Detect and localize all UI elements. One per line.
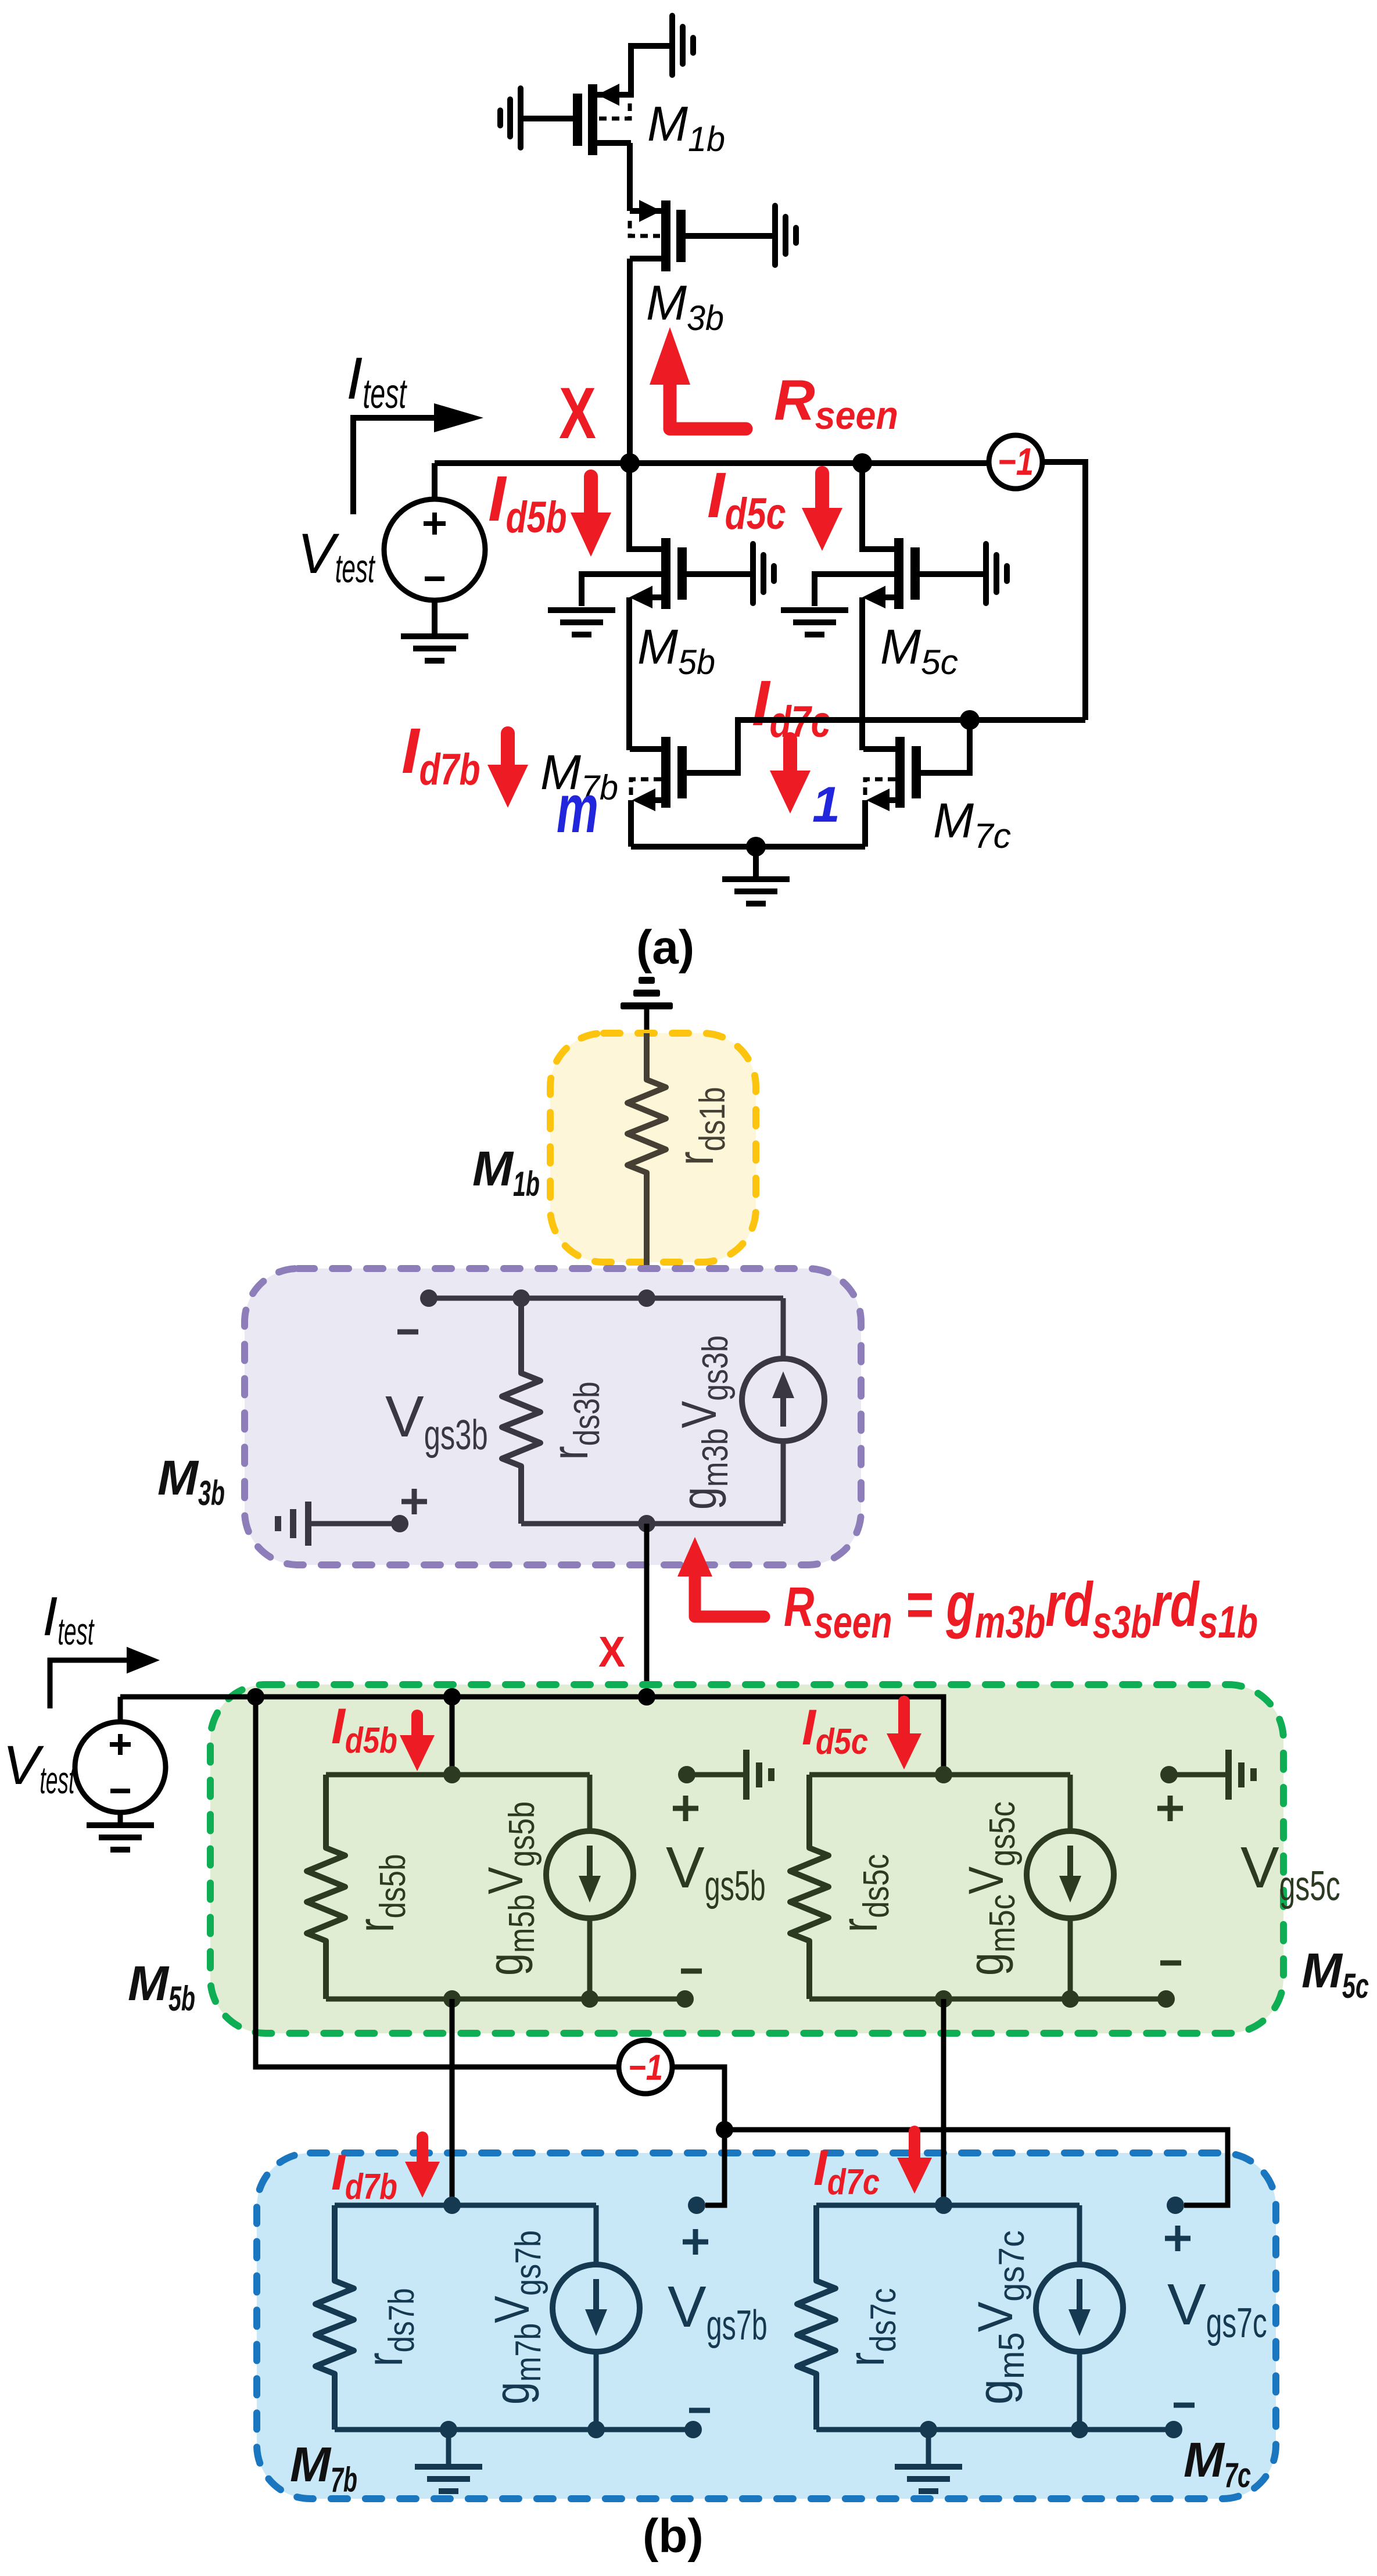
box M3b (purple dashed) bbox=[245, 1269, 861, 1565]
plus sign Vgs7b bbox=[683, 2229, 708, 2255]
M3b gate terminal minus sign bbox=[397, 1330, 418, 1335]
transistor M5b bbox=[582, 463, 750, 750]
gate terminal dot Vgs5c plus bbox=[1160, 1766, 1178, 1783]
wire M7c gate riser bbox=[921, 720, 970, 773]
node dot gate feed bbox=[716, 2121, 733, 2138]
M7b bottom rail bbox=[335, 2427, 693, 2432]
wire M5b source riser to M7b bbox=[450, 1999, 455, 2205]
wire M5b drain riser bbox=[450, 1697, 455, 1775]
node dot M5b drain bbox=[443, 1688, 461, 1706]
wire M1b drain to M3b source bbox=[627, 143, 633, 211]
terminal dot M5b minus bbox=[676, 1990, 694, 2008]
M3b top rail bbox=[429, 1296, 783, 1301]
node dot M7c top bbox=[935, 2197, 952, 2214]
resistor rds7b bbox=[315, 2205, 354, 2430]
main wire at node X bbox=[435, 460, 989, 466]
terminal dot Vgs7c plus bbox=[1167, 2197, 1184, 2214]
current source gm5c Vgs5c bbox=[1027, 1775, 1114, 1999]
node dot M5c source bbox=[935, 1990, 952, 2008]
bias battery Vgs5c bbox=[1169, 1750, 1257, 1800]
resistor rds7c bbox=[797, 2205, 835, 2430]
plus sign M3b gate bbox=[401, 1489, 427, 1514]
bottom source rail (a) bbox=[631, 844, 865, 850]
wire left branch to inverter bbox=[256, 1697, 619, 2067]
svg-text:X: X bbox=[598, 1628, 625, 1676]
node dot M3b bottom center bbox=[638, 1515, 655, 1532]
Vtest source (a) bbox=[384, 463, 485, 633]
node dot M7c gate line bbox=[960, 710, 980, 730]
plus sign Vgs5b bbox=[673, 1796, 698, 1821]
plus sign Vgs5c bbox=[1157, 1796, 1183, 1821]
bias battery at M3b gate bbox=[686, 203, 799, 268]
wire -1 output to gate line bbox=[1042, 462, 1085, 720]
svg-text:−1: −1 bbox=[628, 2048, 663, 2088]
red arrow Id7c (b) bbox=[897, 2131, 932, 2194]
svg-text:−1: −1 bbox=[998, 440, 1034, 483]
M5b top rail bbox=[326, 1772, 590, 1778]
M5c bottom rail bbox=[809, 1997, 1166, 2002]
transistor M3b bbox=[630, 200, 686, 271]
inverter -1 (b) bbox=[619, 2040, 672, 2094]
svg-text:(a): (a) bbox=[636, 921, 694, 974]
terminal dot Vgs7b plus bbox=[688, 2197, 705, 2214]
transistor M1b bbox=[573, 84, 631, 155]
ground M7b bbox=[415, 2430, 482, 2494]
current source gm5b Vgs5b bbox=[546, 1775, 633, 1999]
svg-text:m: m bbox=[557, 771, 598, 847]
Vtest source (b) bbox=[75, 1697, 166, 1822]
transistor M7b bbox=[630, 737, 687, 847]
terminal dot M7c minus bbox=[1165, 2421, 1182, 2438]
supply rail symbol top (b) bbox=[621, 977, 673, 1040]
box M1b (yellow dashed) bbox=[550, 1033, 756, 1262]
transistor M5c bbox=[815, 463, 983, 750]
red arrow Id5b (a) bbox=[571, 476, 611, 557]
red arrow Rseen (a) bbox=[650, 327, 746, 429]
M3b bulk dashed tie bbox=[630, 221, 660, 236]
wire M5c source riser to M7c bbox=[941, 1999, 946, 2205]
wire M1b source to top bias bbox=[631, 46, 669, 98]
minus sign Vgs5b bbox=[681, 1969, 702, 1974]
node dot left branch bbox=[247, 1688, 264, 1706]
red arrow Id7b (a) bbox=[487, 733, 528, 808]
resistor rds5c bbox=[790, 1775, 829, 1999]
bias battery Vgs5b bbox=[687, 1750, 774, 1800]
ground bottom (a) bbox=[722, 847, 790, 907]
transistor M7c bbox=[863, 737, 921, 847]
inverter -1 (a) bbox=[989, 435, 1042, 489]
red arrow Id5c (b) bbox=[887, 1701, 921, 1769]
bias battery at M1b gate bbox=[497, 85, 573, 151]
current source gm7b Vgs7b bbox=[553, 2205, 640, 2430]
node dot M3b top center bbox=[638, 1289, 655, 1307]
ground at M5c bulk bbox=[781, 607, 848, 637]
wire M7b gate to -1 line bbox=[687, 720, 1085, 773]
minus sign Vgs7c bbox=[1174, 2403, 1195, 2408]
svg-text:X: X bbox=[559, 373, 596, 454]
node dot M7c cs bottom bbox=[1071, 2421, 1088, 2438]
node dot M7b ground bbox=[440, 2421, 457, 2438]
power bias symbol top (above M1b source) bbox=[669, 13, 696, 78]
M7c bottom rail bbox=[816, 2427, 1174, 2432]
red arrow Rseen (b) bbox=[677, 1537, 764, 1617]
box M5b M5c (green dashed) bbox=[210, 1685, 1283, 2033]
red arrow Id5b (b) bbox=[400, 1715, 435, 1771]
ground at M5b bulk bbox=[548, 607, 615, 637]
terminal dot M7b minus bbox=[684, 2421, 702, 2438]
arrow Itest (b) bbox=[50, 1647, 160, 1708]
terminal dot gate M3b bbox=[420, 1289, 438, 1307]
M7c bulk dashed tie bbox=[865, 779, 895, 797]
node dot X bbox=[620, 453, 640, 473]
node dot X (b) bbox=[638, 1688, 655, 1706]
wire M3b drain to node X bbox=[627, 259, 633, 463]
M7b top rail bbox=[335, 2203, 596, 2208]
resistor rds1b bbox=[627, 1033, 666, 1298]
M7c top rail bbox=[816, 2203, 1080, 2208]
bias battery at M5c gate bbox=[983, 541, 1010, 606]
resistor rds5b bbox=[307, 1775, 345, 1999]
resistor rds3b bbox=[502, 1298, 540, 1524]
node dot rds3b top bbox=[512, 1289, 530, 1307]
M3b bottom rail bbox=[521, 1521, 783, 1527]
red arrow Id7c (a) bbox=[770, 739, 811, 814]
ground M7c bbox=[895, 2430, 962, 2494]
M7b bulk dashed tie bbox=[631, 779, 661, 797]
minus sign Vgs5c bbox=[1160, 1961, 1181, 1966]
bias battery at M5b gate bbox=[750, 541, 777, 606]
node dot M5c top bbox=[935, 1766, 952, 1783]
M5b bottom rail bbox=[326, 1997, 685, 2002]
box M7b M7c (blue dashed) bbox=[257, 2153, 1276, 2499]
arrow Itest (a) bbox=[353, 403, 483, 514]
svg-text:1: 1 bbox=[812, 777, 840, 833]
node dot M7b top bbox=[443, 2197, 461, 2214]
node dot M5c drain bbox=[852, 453, 872, 473]
wire inverter output down bbox=[672, 2067, 725, 2130]
red arrow Id5c (a) bbox=[802, 473, 842, 551]
node dot bottom rail bbox=[746, 837, 766, 857]
plus sign Vgs7c bbox=[1165, 2226, 1190, 2251]
node dot M7c ground bbox=[920, 2421, 937, 2438]
node dot M5b source bbox=[443, 1990, 461, 2008]
minus sign Vgs7b bbox=[689, 2408, 710, 2413]
node dot M5c cs bottom bbox=[1062, 1990, 1079, 2008]
main wire (b) bbox=[120, 1697, 944, 1775]
gate terminal dot Vgs5b plus bbox=[678, 1766, 695, 1783]
current source gm3b Vgs3b bbox=[742, 1298, 824, 1524]
wire gate feed to Vgs7c plus bbox=[725, 2130, 1228, 2205]
current source gm5 Vgs7c bbox=[1036, 2205, 1123, 2430]
ground below Vtest (b) bbox=[87, 1822, 154, 1853]
wire gate feed to Vgs7b plus bbox=[705, 2130, 725, 2205]
M1b bulk dashed tie bbox=[598, 103, 630, 119]
red arrow Id7b (b) bbox=[405, 2137, 440, 2198]
ground at M3b gate (left) bbox=[275, 1502, 408, 1546]
node dot M5b cs bottom bbox=[581, 1990, 598, 2008]
node dot M5b top bbox=[443, 1766, 461, 1783]
M5c top rail bbox=[809, 1772, 1070, 1778]
wire M3b to node X (b) bbox=[644, 1524, 650, 1697]
node dot M7b cs bottom bbox=[587, 2421, 605, 2438]
ground below Vtest (a) bbox=[401, 633, 468, 664]
svg-text:(b): (b) bbox=[643, 2510, 704, 2563]
terminal dot M5c minus bbox=[1157, 1990, 1175, 2008]
